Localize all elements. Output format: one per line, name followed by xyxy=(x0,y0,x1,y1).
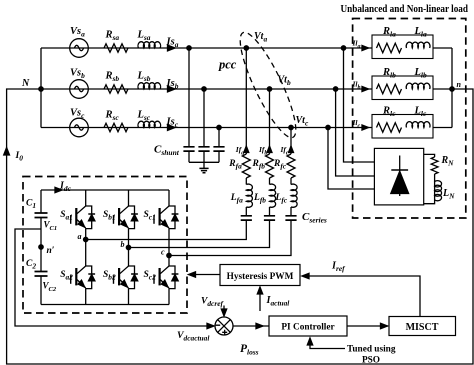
svg-text:Sb1: Sb1 xyxy=(103,210,116,221)
arrow Vdcref into summer xyxy=(221,306,226,317)
svg-text:N: N xyxy=(21,78,30,89)
svg-text:Vsb: Vsb xyxy=(70,68,85,80)
svg-text:Rlc: Rlc xyxy=(382,106,396,118)
inductor Lfc xyxy=(275,178,298,207)
wire neutral return xyxy=(7,89,473,364)
load branch c box xyxy=(372,115,433,139)
resistor Rfc xyxy=(273,154,295,178)
inductor Lsb xyxy=(137,71,161,90)
svg-text:Lfc: Lfc xyxy=(275,193,288,204)
svg-text:PI Controller: PI Controller xyxy=(281,323,334,333)
svg-text:Rfa: Rfa xyxy=(228,159,242,170)
wire rectifier dc xyxy=(424,154,435,203)
svg-text:C1: C1 xyxy=(26,199,36,210)
svg-text:Lsa: Lsa xyxy=(137,30,151,42)
node c xyxy=(161,248,171,258)
label Vdcactual xyxy=(177,330,210,342)
wire filter branch b lower xyxy=(129,220,270,247)
resistor Rfb xyxy=(252,154,274,178)
node a xyxy=(78,232,88,242)
load dashed box xyxy=(353,19,466,219)
svg-text:Ifa: Ifa xyxy=(235,145,244,156)
wire dc top bus xyxy=(41,189,169,191)
wire phase a xyxy=(41,47,372,49)
wire filter branch c upper xyxy=(290,128,292,155)
transistor Sc1 xyxy=(144,206,179,229)
current Ifb arrow xyxy=(258,145,272,156)
current Iactual arrow xyxy=(257,287,290,311)
svg-text:RN: RN xyxy=(441,155,455,167)
svg-text:VC2: VC2 xyxy=(43,281,57,293)
svg-text:Cseries: Cseries xyxy=(302,211,327,224)
current Isb arrow xyxy=(166,78,179,92)
current Ilb arrow xyxy=(352,80,369,92)
label Tuned using PSO xyxy=(347,345,396,365)
svg-text:Sc2: Sc2 xyxy=(144,270,157,281)
capacitor Cseries c xyxy=(285,216,296,220)
pcc dashed ellipse xyxy=(218,27,305,143)
wire shunt b xyxy=(203,89,205,147)
wire filter branch c lower xyxy=(169,220,291,255)
wire load c to n bus xyxy=(433,127,452,129)
load branch a box xyxy=(372,35,433,59)
resistor RN xyxy=(431,155,454,174)
voltage source VSb xyxy=(70,68,89,99)
svg-text:PSO: PSO xyxy=(362,356,380,365)
node Vtc xyxy=(289,115,309,130)
inductor Llc xyxy=(406,106,430,128)
svg-text:Ifc: Ifc xyxy=(280,145,289,156)
svg-text:VC1: VC1 xyxy=(44,220,58,232)
voltage source VSc xyxy=(70,108,89,137)
node b xyxy=(121,240,131,250)
wire shunt a xyxy=(188,48,190,147)
svg-text:Isa: Isa xyxy=(166,37,179,49)
svg-text:Rfb: Rfb xyxy=(252,159,266,170)
wire load n bus xyxy=(451,48,453,128)
current I0 arrow xyxy=(4,148,24,163)
tuning arrow xyxy=(307,338,345,349)
svg-text:Sa2: Sa2 xyxy=(60,270,73,281)
svg-text:Sa1: Sa1 xyxy=(60,210,73,221)
wire filter branch b upper xyxy=(269,89,271,154)
transistor Sc2 xyxy=(144,266,179,289)
label Unbalanced and Non-linear load xyxy=(341,4,469,15)
diode D1 xyxy=(391,156,409,197)
svg-text:b: b xyxy=(121,240,125,249)
node n xyxy=(450,80,462,91)
svg-text:Rla: Rla xyxy=(382,26,396,38)
voltage source VSa xyxy=(70,26,89,57)
inductor Lsc xyxy=(137,110,161,128)
node rect tap a xyxy=(341,46,345,50)
wire Iref xyxy=(302,261,420,317)
svg-text:Idc: Idc xyxy=(59,181,72,193)
svg-text:Lla: Lla xyxy=(414,26,427,38)
resistor Rla xyxy=(377,26,402,53)
block MISCT xyxy=(389,317,456,336)
svg-text:Isc: Isc xyxy=(166,117,179,129)
svg-text:Rsb: Rsb xyxy=(105,71,120,83)
current Ifc arrow xyxy=(280,145,294,156)
inductor Llb xyxy=(406,67,430,89)
svg-text:Lsb: Lsb xyxy=(137,71,151,83)
current Idc arrow xyxy=(55,181,72,193)
svg-text:C2: C2 xyxy=(26,259,36,270)
node shunt tap a xyxy=(187,46,191,50)
svg-text:Isb: Isb xyxy=(166,78,179,90)
svg-text:Vtb: Vtb xyxy=(278,75,291,87)
label VC1 xyxy=(44,220,58,232)
wire dc left mid xyxy=(40,218,42,272)
wire inverter leg a xyxy=(85,190,87,305)
wire inverter leg c xyxy=(168,190,170,305)
wire summer to PI xyxy=(233,323,269,328)
svg-text:Lsc: Lsc xyxy=(137,110,151,122)
node n-prime xyxy=(39,245,55,256)
svg-text:I0: I0 xyxy=(15,151,24,162)
wire filter branch a mid xyxy=(245,207,247,216)
wire PI to MISCT xyxy=(347,323,388,328)
wire shunt ground bus xyxy=(189,151,219,168)
node shunt tap b xyxy=(202,87,206,91)
label Cseries xyxy=(302,211,327,224)
svg-text:Vsa: Vsa xyxy=(70,26,85,38)
label Vdcref xyxy=(201,297,224,308)
svg-text:Rsc: Rsc xyxy=(105,110,120,122)
block PI Controller xyxy=(269,316,347,336)
block Hysteresis PWM xyxy=(220,265,300,286)
capacitor Cshunt b xyxy=(198,147,209,151)
svg-text:Iref: Iref xyxy=(331,261,346,273)
node Vtb xyxy=(267,75,291,92)
summing junction xyxy=(215,317,233,335)
svg-text:Hysteresis PWM: Hysteresis PWM xyxy=(227,272,294,282)
svg-text:Unbalanced and Non-linear load: Unbalanced and Non-linear load xyxy=(341,4,469,15)
current Ifa arrow xyxy=(235,145,249,156)
label VC2 xyxy=(43,281,57,293)
svg-text:n′: n′ xyxy=(47,246,55,256)
load branch b box xyxy=(372,76,433,100)
inductor Lfb xyxy=(253,178,276,207)
resistor Rfa xyxy=(228,154,250,178)
wire source bus xyxy=(40,48,42,128)
node N xyxy=(21,78,43,91)
svg-text:Ifb: Ifb xyxy=(258,145,267,156)
svg-text:Lfb: Lfb xyxy=(253,193,266,204)
wire filter branch a upper xyxy=(245,48,247,154)
svg-text:Vta: Vta xyxy=(254,31,267,43)
capacitor Cshunt c xyxy=(213,147,224,151)
svg-text:a: a xyxy=(78,232,82,241)
wire shunt c xyxy=(218,128,220,147)
svg-text:Ploss: Ploss xyxy=(240,343,259,356)
node Vta xyxy=(244,31,267,50)
resistor Rlc xyxy=(377,106,402,133)
inductor Lfa xyxy=(230,178,253,207)
transistor Sa2 xyxy=(60,266,95,289)
current Isc arrow xyxy=(166,117,179,131)
wire dc left lower xyxy=(40,276,42,305)
inverter dashed box xyxy=(23,177,187,314)
svg-text:Sc1: Sc1 xyxy=(144,210,156,221)
node shunt tap c xyxy=(217,125,221,129)
wire rectifier feed b xyxy=(336,89,375,176)
inductor Lsa xyxy=(137,30,161,49)
svg-text:Vsc: Vsc xyxy=(70,108,85,120)
capacitor C2 xyxy=(26,259,48,276)
current Ilc arrow xyxy=(352,118,369,130)
svg-text:Rfc: Rfc xyxy=(273,159,287,170)
svg-text:Llb: Llb xyxy=(414,67,427,79)
gate drive arrow xyxy=(189,272,221,277)
svg-text:Cshunt: Cshunt xyxy=(154,144,180,157)
label Ploss xyxy=(240,343,259,356)
rectifier box xyxy=(374,148,423,205)
transistor Sb1 xyxy=(103,206,138,229)
svg-text:Rlb: Rlb xyxy=(382,67,396,79)
label Cshunt xyxy=(154,144,180,157)
wire dc bottom bus xyxy=(41,304,169,306)
svg-text:pcc: pcc xyxy=(218,58,237,72)
svg-text:Vtc: Vtc xyxy=(296,115,309,127)
node rect tap c xyxy=(326,125,330,129)
wire rectifier feed c xyxy=(328,128,374,190)
wire inverter leg b xyxy=(128,190,130,305)
svg-text:Tuned using: Tuned using xyxy=(347,345,396,355)
resistor Rlb xyxy=(377,67,402,94)
wire rectifier feed a xyxy=(344,48,375,162)
resistor Rsb xyxy=(104,71,128,94)
wire load b to n bus xyxy=(433,88,452,90)
wire load a to n bus xyxy=(433,47,452,49)
svg-text:MISCT: MISCT xyxy=(406,322,439,333)
wire dc left upper xyxy=(40,190,42,213)
svg-text:Iactual: Iactual xyxy=(266,295,291,307)
capacitor Cseries b xyxy=(264,216,275,220)
capacitor C1 xyxy=(26,199,48,218)
svg-text:Sb2: Sb2 xyxy=(103,270,116,281)
capacitor Cseries a xyxy=(241,216,252,220)
transistor Sb2 xyxy=(103,266,138,289)
wire filter branch c mid xyxy=(290,207,292,216)
node rect tap b xyxy=(333,87,337,91)
transistor Sa1 xyxy=(60,206,95,229)
svg-text:Vdcactual: Vdcactual xyxy=(177,330,210,342)
arrow Vdcactual into summer xyxy=(207,323,214,328)
resistor Rsa xyxy=(104,30,128,53)
resistor Rsc xyxy=(104,110,128,132)
svg-text:Lfa: Lfa xyxy=(230,193,243,204)
wire vdc tap xyxy=(15,229,214,326)
wire filter branch a lower xyxy=(86,220,247,239)
svg-text:LN: LN xyxy=(442,188,455,200)
inductor Lla xyxy=(406,26,430,48)
current Isa arrow xyxy=(166,37,179,51)
wire filter branch b mid xyxy=(269,207,271,216)
capacitor Cshunt a xyxy=(183,147,194,151)
svg-text:Llc: Llc xyxy=(414,106,427,118)
current Ila arrow xyxy=(352,39,369,51)
svg-text:Vdcref: Vdcref xyxy=(201,297,224,308)
svg-text:Rsa: Rsa xyxy=(105,30,120,42)
svg-text:c: c xyxy=(161,248,165,257)
svg-text:n: n xyxy=(457,80,462,89)
ground xyxy=(199,168,208,172)
inductor LN xyxy=(435,174,456,201)
wire phase b xyxy=(41,88,372,90)
wire phase c xyxy=(41,127,372,129)
